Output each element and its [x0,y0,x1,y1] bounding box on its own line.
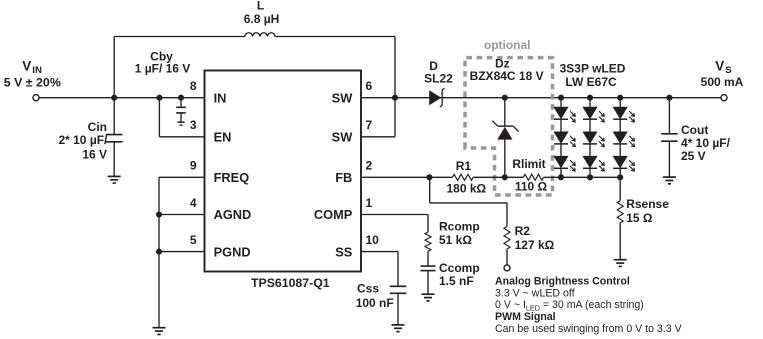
svg-text:Cout: Cout [681,123,708,137]
svg-text:R1: R1 [456,159,472,173]
svg-text:500 mA: 500 mA [701,75,744,89]
svg-text:5: 5 [190,233,197,247]
svg-text:FREQ: FREQ [214,170,250,185]
svg-text:2: 2 [366,159,373,173]
svg-text:1.5 nF: 1.5 nF [439,274,474,288]
svg-text:TPS61087-Q1: TPS61087-Q1 [251,276,330,290]
svg-text:SL22: SL22 [424,71,453,85]
svg-text:110 Ω: 110 Ω [515,180,548,194]
svg-text:Rlimit: Rlimit [512,157,545,171]
svg-text:optional: optional [484,38,531,52]
svg-text:Css: Css [357,282,379,296]
svg-text:8: 8 [190,79,197,93]
svg-text:SW: SW [332,130,354,145]
svg-text:AGND: AGND [214,207,252,222]
svg-text:EN: EN [214,130,232,145]
svg-text:10: 10 [366,233,380,247]
svg-text:BZX84C 18 V: BZX84C 18 V [470,69,544,83]
svg-text:15 Ω: 15 Ω [626,211,653,225]
svg-text:COMP: COMP [314,207,353,222]
svg-text:4: 4 [190,196,197,210]
svg-text:51 kΩ: 51 kΩ [439,233,472,247]
svg-text:25 V: 25 V [681,149,706,163]
svg-text:6.8 µH: 6.8 µH [244,12,280,26]
svg-text:2* 10 µF/: 2* 10 µF/ [58,133,108,147]
svg-text:Rsense: Rsense [626,197,669,211]
svg-text:5 V ± 20%: 5 V ± 20% [4,76,61,90]
svg-text:100 nF: 100 nF [356,296,394,310]
svg-text:LW E67C: LW E67C [565,75,617,89]
svg-text:Ccomp: Ccomp [439,261,480,275]
svg-text:FB: FB [335,170,352,185]
svg-text:6: 6 [366,79,373,93]
svg-text:SW: SW [332,90,354,105]
svg-text:PGND: PGND [214,244,251,259]
svg-text:V: V [715,59,724,74]
svg-text:1 µF/ 16 V: 1 µF/ 16 V [135,61,191,75]
svg-text:R2: R2 [515,224,531,238]
svg-text:7: 7 [366,118,373,132]
svg-text:PWM Signal: PWM Signal [495,311,556,323]
svg-text:16 V: 16 V [82,148,107,162]
svg-text:Rcomp: Rcomp [439,220,480,234]
svg-text:3S3P wLED: 3S3P wLED [560,62,626,76]
svg-text:3.3 V ~ wLED off: 3.3 V ~ wLED off [495,287,575,299]
svg-text:IN: IN [32,65,42,76]
svg-text:Analog Brightness Control: Analog Brightness Control [495,276,630,288]
svg-text:9: 9 [190,159,197,173]
svg-text:L: L [257,0,264,13]
svg-text:3: 3 [190,118,197,132]
svg-text:1: 1 [366,196,373,210]
svg-text:V: V [22,58,31,73]
svg-text:Can be used swinging from 0 V: Can be used swinging from 0 V to 3.3 V [495,323,683,335]
svg-text:4* 10 µF/: 4* 10 µF/ [681,136,731,150]
svg-text:IN: IN [214,90,227,105]
svg-text:SS: SS [335,244,353,259]
svg-text:Cin: Cin [88,120,107,134]
svg-text:180 kΩ: 180 kΩ [446,181,486,195]
svg-text:127 kΩ: 127 kΩ [515,238,555,252]
